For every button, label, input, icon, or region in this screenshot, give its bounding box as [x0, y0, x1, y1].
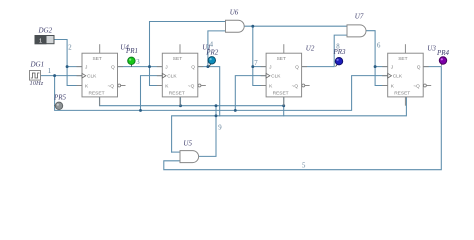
- svg-text:4: 4: [210, 41, 214, 48]
- svg-text:U2: U2: [306, 44, 315, 52]
- svg-text:1: 1: [39, 38, 42, 44]
- svg-text:PR5: PR5: [53, 94, 67, 102]
- svg-text:PR2: PR2: [205, 49, 219, 57]
- svg-text:9: 9: [218, 124, 222, 131]
- svg-text:U3: U3: [427, 44, 436, 52]
- svg-text:7: 7: [254, 60, 258, 67]
- svg-text:PR3: PR3: [333, 48, 347, 56]
- svg-text:DG2: DG2: [38, 27, 53, 35]
- svg-text:6: 6: [377, 42, 381, 49]
- svg-text:PR1: PR1: [125, 47, 138, 55]
- svg-text:5: 5: [302, 163, 306, 170]
- svg-text:DG1: DG1: [30, 61, 45, 69]
- svg-text:2: 2: [68, 44, 72, 51]
- svg-text:PR4: PR4: [436, 49, 450, 57]
- svg-text:U7: U7: [355, 13, 364, 21]
- svg-text:U5: U5: [183, 139, 192, 147]
- svg-text:1: 1: [48, 68, 51, 75]
- svg-text:10Hz: 10Hz: [30, 80, 44, 87]
- svg-text:U6: U6: [230, 8, 239, 16]
- svg-text:3: 3: [136, 59, 140, 66]
